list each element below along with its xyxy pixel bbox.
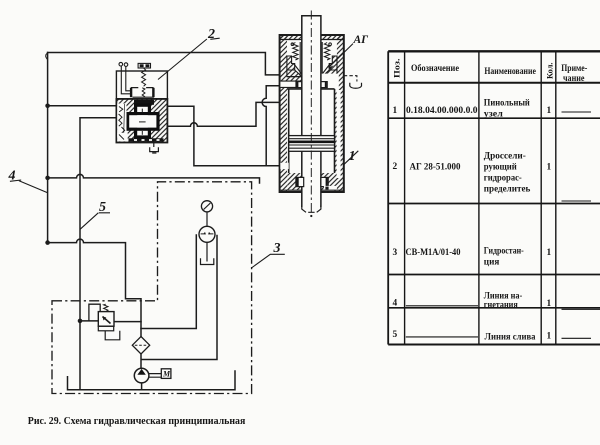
wire drain line 5 from distributor left — [80, 118, 116, 390]
wire relief valve inlet from line 5 — [80, 320, 98, 322]
cylinder left wall hatch — [280, 36, 287, 192]
cylinder right wall inner channel — [337, 90, 341, 178]
wire filter to pump — [140, 354, 142, 368]
wire pump pressure line to line 4 — [48, 239, 141, 336]
cylinder upper chamber springs — [291, 42, 331, 76]
distributor armature brackets — [131, 88, 154, 98]
cylinder bottom right slot — [324, 186, 337, 190]
cylinder top flange line — [280, 36, 301, 40]
svg-text:пределитеь: пределитеь — [484, 185, 531, 195]
svg-text:ция: ция — [484, 258, 500, 268]
svg-text:Линия слива: Линия слива — [485, 333, 536, 343]
svg-text:Приме-: Приме- — [561, 64, 587, 74]
svg-text:Обозначение: Обозначение — [411, 63, 459, 74]
wire pump to tank — [141, 383, 143, 390]
svg-text:рующий: рующий — [484, 162, 518, 173]
cylinder chamber floor — [287, 76, 337, 78]
svg-text:1: 1 — [547, 163, 552, 173]
breather circle — [199, 226, 215, 242]
tank reservoir — [68, 371, 236, 390]
svg-text:4: 4 — [393, 299, 398, 309]
pump circle — [134, 368, 149, 383]
relief valve main square — [98, 312, 114, 327]
wire P to distributor left port — [48, 105, 117, 107]
svg-text:Поз.: Поз. — [392, 59, 402, 79]
node junction dot return — [45, 176, 50, 181]
relief valve pilot box — [89, 304, 100, 320]
distributor black top bar — [134, 100, 154, 105]
svg-text:Пинольный: Пинольный — [484, 98, 531, 109]
distributor dark bottom bar — [117, 133, 128, 142]
svg-text:гидрорас-: гидрорас- — [484, 174, 522, 184]
relief valve lower rect — [98, 326, 113, 331]
table header texts — [392, 59, 588, 85]
filter diamond — [132, 337, 149, 354]
table body texts — [393, 98, 552, 343]
svg-text:СВ-М1А/01-40: СВ-М1А/01-40 — [406, 247, 461, 257]
svg-text:1: 1 — [547, 248, 552, 258]
node junction dot pressure — [45, 240, 50, 245]
cylinder U1 outer housing — [280, 35, 344, 192]
svg-text:5: 5 — [393, 330, 398, 340]
wire distributor port B to cylinder mid port — [167, 102, 281, 126]
wire return line horizontal — [48, 174, 260, 183]
svg-text:Наименование: Наименование — [484, 67, 536, 77]
svg-text:3: 3 — [393, 248, 398, 258]
distributor drain bracket — [150, 143, 159, 154]
wire distributor port A to cylinder lower port — [167, 106, 281, 165]
table empty cell dashes — [406, 112, 600, 338]
svg-text:Гидростан-: Гидростан- — [484, 247, 524, 257]
distributor spool inner ticks — [139, 109, 146, 135]
breather stem to tank — [206, 242, 208, 261]
cylinder bottom port gap — [280, 163, 288, 169]
cylinder leak drain dashed — [344, 76, 357, 82]
distributor U2 control section box — [116, 71, 167, 99]
node junction dot relief inlet — [78, 319, 83, 324]
svg-text:М: М — [162, 370, 171, 379]
svg-text:АГ: АГ — [353, 34, 369, 46]
cylinder left port channel — [280, 81, 301, 87]
specification table grid — [388, 51, 600, 344]
svg-text:Дроссели-: Дроссели- — [484, 152, 526, 162]
hydrostation boundary dash-dot — [52, 182, 252, 394]
cylinder spring seats — [287, 56, 337, 77]
wire top supply line to cylinder upper port — [48, 53, 282, 75]
svg-text:1: 1 — [547, 299, 552, 309]
svg-text:1: 1 — [547, 106, 552, 116]
node junction dot P-distributor — [45, 104, 50, 109]
svg-text:гнетания: гнетания — [484, 301, 518, 311]
relief valve drain loop — [105, 331, 120, 340]
relief valve spring — [104, 304, 108, 311]
svg-text:узел: узел — [484, 110, 504, 120]
svg-text:0.18.04.00.000.0.0: 0.18.04.00.000.0.0 — [406, 105, 478, 115]
distributor centering spring — [142, 88, 145, 97]
distributor hatched valve block — [116, 99, 167, 143]
wire cylinder second port drop line — [262, 86, 281, 166]
relief valve arrow — [103, 317, 111, 324]
motor M box — [161, 369, 171, 379]
wire breather right line — [142, 236, 217, 360]
pump motor shaft — [149, 374, 161, 378]
wire relief valve outlet to filter line — [114, 321, 141, 323]
distributor left port notch — [117, 104, 126, 137]
cylinder right port notch — [321, 74, 339, 90]
cylinder rod break marks — [302, 206, 321, 213]
svg-text:Кол.: Кол. — [545, 63, 555, 80]
svg-text:1: 1 — [547, 332, 552, 342]
gauge manometer — [201, 201, 212, 212]
svg-text:2: 2 — [393, 162, 398, 172]
svg-text:1: 1 — [393, 106, 398, 116]
distributor pilot connection circles — [119, 62, 131, 93]
cylinder bottom edge line — [280, 189, 344, 191]
svg-text:чание: чание — [563, 74, 585, 84]
cylinder piston — [289, 136, 335, 152]
distributor torque motor box — [138, 63, 150, 68]
wire pressure line 4 vertical — [47, 53, 49, 243]
corner tick artifact — [46, 53, 48, 59]
cylinder cone lines — [294, 64, 331, 75]
cylinder bore walls — [287, 89, 335, 173]
cylinder right wall hatch upper — [337, 36, 343, 77]
gauge stem — [206, 212, 208, 227]
cylinder bottom seal boxes — [296, 177, 304, 186]
breather tank symbol — [201, 258, 214, 264]
cylinder right wall hatch lower — [335, 77, 344, 191]
cylinder bottom gland hatch — [287, 173, 334, 190]
wire breather left line — [141, 235, 196, 329]
svg-text:Рис. 29. Схема гидравлическая: Рис. 29. Схема гидравлическая принципиал… — [28, 416, 246, 427]
cylinder rod centerline — [310, 11, 312, 215]
cylinder rod seal right — [321, 82, 327, 88]
cylinder rod — [302, 16, 321, 207]
svg-text:АГ 28-51.000: АГ 28-51.000 — [410, 163, 461, 173]
distributor pilot spring vertical — [142, 68, 146, 86]
cylinder rod seal left — [296, 82, 302, 88]
distributor spool white cross — [128, 105, 158, 137]
